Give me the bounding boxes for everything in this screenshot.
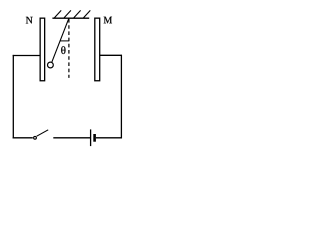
ceiling hatching [54, 10, 90, 18]
wire right vertical [120, 55, 122, 138]
label N [26, 17, 33, 24]
wire from battery to right corner [96, 137, 122, 139]
battery short thick plate (negative) [93, 134, 96, 142]
wire from plate M to right corner [100, 54, 122, 56]
wire bottom left segment (to switch) [13, 137, 33, 139]
ceiling [52, 17, 89, 19]
wire from plate N to left corner [13, 55, 40, 57]
wire from switch gap to battery [53, 137, 90, 139]
switch lever [37, 130, 49, 136]
plate N (left capacitor plate) [40, 18, 45, 81]
switch pivot circle [34, 136, 37, 139]
label θ [61, 46, 65, 54]
plate M (right capacitor plate) [95, 18, 100, 81]
dashed vertical reference line [68, 19, 70, 78]
string (pendulum thread from pivot to ball) [52, 18, 69, 62]
ball (charged sphere) [48, 62, 54, 68]
wire left vertical [12, 55, 14, 139]
label M [104, 17, 112, 24]
battery long plate (positive) [90, 129, 92, 146]
angle marker [60, 40, 69, 42]
